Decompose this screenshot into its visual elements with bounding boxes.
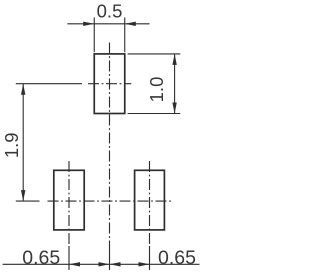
dimension/leader line xyxy=(110,263,200,265)
dimension 1.0 (top pad height, right side) xyxy=(128,54,181,114)
svg-text:0.65: 0.65 xyxy=(22,247,60,269)
dimension 0.65 (bottom right pitch) xyxy=(110,263,200,265)
centerline horizontal bottom pads xyxy=(48,200,173,202)
dimension line xyxy=(174,54,176,114)
dimension/leader line xyxy=(3,263,110,265)
dimension 0.5 (top pad width) xyxy=(67,17,149,52)
centerline vertical main (through top pad, down to bottom dimension) xyxy=(109,43,111,271)
pad P3 (bottom right) xyxy=(135,170,165,230)
pad P2 (bottom left) xyxy=(54,170,84,230)
extension line right xyxy=(124,17,126,52)
arrow right (outside, pointing left) xyxy=(125,22,136,26)
dimension line xyxy=(67,23,149,25)
dimension line xyxy=(22,84,24,201)
arrow left (outside, pointing right) xyxy=(83,22,94,26)
arrow at main centerline pointing right xyxy=(99,262,110,266)
svg-text:1.0: 1.0 xyxy=(146,77,167,103)
arrow at left pad centerline pointing left xyxy=(69,262,80,266)
svg-text:1.9: 1.9 xyxy=(1,132,22,158)
centerline vertical pad P2 xyxy=(68,161,70,270)
extension line bottom xyxy=(128,113,181,115)
extension line top xyxy=(16,83,82,85)
extension line top xyxy=(128,53,181,55)
arrow down xyxy=(172,103,176,114)
extension line left xyxy=(93,17,95,52)
centerline horizontal top pad xyxy=(88,83,131,85)
extension line bottom xyxy=(16,200,40,202)
dimension 0.65 (bottom left pitch) xyxy=(3,263,110,265)
arrow down xyxy=(21,190,25,201)
svg-text:0.65: 0.65 xyxy=(158,247,196,269)
svg-text:0.5: 0.5 xyxy=(97,1,123,22)
arrow at main centerline pointing left xyxy=(110,262,121,266)
dimension 1.9 (vertical pitch, left side) xyxy=(16,84,82,201)
arrow up xyxy=(21,84,25,95)
pad P1 (top) xyxy=(94,54,125,114)
arrow at right pad centerline pointing right xyxy=(139,262,150,266)
arrow up xyxy=(172,54,176,65)
centerline vertical pad P3 xyxy=(149,161,151,270)
